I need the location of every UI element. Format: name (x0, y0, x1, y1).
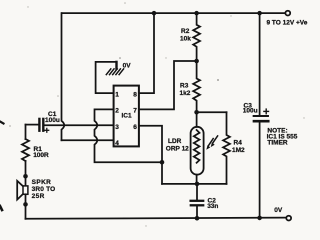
wire: C1 to R1 top (25, 125, 27, 139)
scan artifact: left edge tick lower (0, 206, 2, 210)
junction: C3 branch to 0V rail (257, 216, 262, 221)
wire: bottom 0V rail (26, 218, 287, 219)
polarity + mark C3 (264, 109, 269, 114)
svg-text:0V: 0V (123, 62, 132, 69)
wire: pin 1 to ground symbol (96, 62, 117, 93)
wire: LDR/C2/R4 bottom link (162, 183, 227, 185)
svg-text:100u: 100u (243, 108, 258, 115)
svg-text:R2: R2 (181, 28, 190, 35)
svg-text:1M2: 1M2 (232, 147, 245, 154)
svg-text:4: 4 (115, 140, 119, 147)
resistor R4 (223, 112, 245, 184)
svg-text:TIMER: TIMER (267, 139, 288, 146)
capacitor C3 (supply decoupling) (243, 13, 268, 218)
wire: pin 8 to +V rail (139, 13, 154, 93)
capacitor C1 (26, 111, 60, 131)
wire: top +V rail (62, 12, 285, 14)
svg-text:LDR: LDR (168, 138, 182, 145)
svg-text:1k2: 1k2 (180, 90, 191, 97)
junction: C3 branch to +V rail (257, 11, 262, 16)
terminal: 0V (286, 216, 291, 221)
wire: speaker to 0V rail (25, 204, 27, 218)
ground symbol (0V) (106, 62, 131, 74)
svg-text:SPKR: SPKR (32, 179, 52, 186)
junction: trigger/threshold node (160, 160, 165, 165)
svg-text:25R: 25R (32, 193, 45, 200)
svg-text:R3: R3 (180, 83, 189, 90)
wire: pin 2 riser to node (hops over pin3 and pin4 wires) (95, 109, 163, 162)
wire: pin 7 to R2/R3 junction (139, 61, 195, 109)
wire: R1 to speaker (25, 161, 27, 176)
svg-text:2: 2 (115, 108, 119, 115)
resistor R1 (22, 139, 49, 161)
junction: R2/R3/pin7 node (194, 59, 199, 64)
resistor R3 (180, 61, 201, 112)
LDR (ORP12) (166, 112, 204, 184)
op-amp/timer IC1 555 body (114, 86, 139, 147)
svg-text:3: 3 (115, 124, 119, 131)
note text (267, 127, 298, 146)
scan artifact: left edge tick upper (0, 122, 4, 124)
capacitor C2 (191, 184, 219, 218)
wire: left +V rail (hop over C1-pin3 wire) (62, 13, 65, 140)
speaker SPKR (17, 176, 55, 204)
junction: speaker top (23, 174, 28, 179)
junction: C2 to 0V rail (195, 216, 200, 221)
svg-text:7: 7 (133, 108, 137, 115)
svg-text:1: 1 (115, 91, 119, 98)
wire: node to R4 top (197, 111, 227, 113)
svg-text:33n: 33n (207, 203, 218, 210)
svg-text:8: 8 (133, 91, 137, 98)
svg-text:10k: 10k (180, 36, 191, 43)
svg-text:3R0 TO: 3R0 TO (32, 186, 56, 193)
svg-text:IC1: IC1 (122, 113, 133, 120)
svg-text:9 TO 12V +Ve: 9 TO 12V +Ve (267, 20, 308, 27)
light arrows into LDR (206, 136, 217, 150)
junction: R2 to +V rail (194, 11, 199, 16)
wire: reset pin 4 from +V rail (62, 139, 114, 141)
resistor R2 (180, 13, 200, 61)
svg-text:R4: R4 (234, 140, 243, 147)
svg-text:100u: 100u (45, 117, 60, 124)
polarity + mark C1 (45, 128, 49, 132)
svg-text:ORP 12: ORP 12 (166, 146, 189, 153)
svg-text:0V: 0V (274, 207, 283, 214)
terminal: +V supply (285, 11, 290, 16)
wire: pin 6 to LDR/C2 node (139, 126, 162, 184)
svg-text:100R: 100R (33, 152, 49, 159)
wire: C1 to pin 3 (output coupling, crosses rails under hops) (45, 124, 114, 126)
junction: speaker bottom (23, 202, 28, 207)
junction: LDR/C2 bottom node (195, 182, 200, 187)
svg-text:6: 6 (133, 124, 137, 131)
junction: pin 8 riser to +V rail (152, 11, 157, 16)
junction: R3/LDR/R4 node (194, 110, 199, 115)
